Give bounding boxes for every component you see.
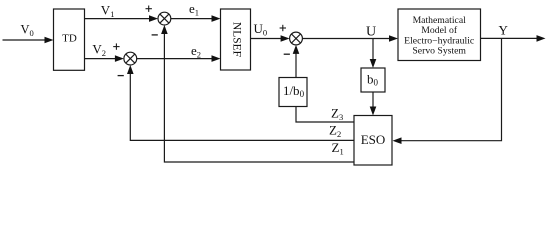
block TD — [54, 9, 85, 70]
wire b0 to ESO — [372, 92, 374, 108]
arrowhead U down into b0 — [370, 59, 377, 68]
wire Z2 from ESO to J2 — [130, 74, 354, 141]
svg-text:Servo System: Servo System — [412, 46, 466, 57]
plus sign J1 — [146, 6, 152, 12]
wire Y feedback to ESO — [401, 38, 502, 140]
arrowhead U into model — [389, 35, 398, 42]
arrowhead V0 into TD — [45, 37, 54, 44]
svg-text:Y: Y — [499, 22, 509, 37]
wire e2 — [137, 58, 213, 60]
block NLSEF — [221, 9, 251, 70]
arrowhead U0 into J3 — [281, 35, 290, 42]
wire V1 — [85, 18, 151, 20]
svg-text:TD: TD — [62, 33, 77, 45]
plus sign J2 — [113, 43, 119, 49]
arrowhead e1 into NLSEF — [212, 15, 221, 22]
minus sign J2 — [118, 75, 124, 77]
summing junction J3 — [290, 32, 303, 45]
arrowhead V2 into J2 — [115, 55, 124, 62]
arrowhead Z1 up into J1 — [161, 25, 168, 34]
wire V2 — [85, 58, 117, 60]
wire V0 input — [3, 39, 46, 41]
arrowhead 1/b0 up into J3 — [293, 45, 300, 54]
arrowhead e2 into NLSEF — [212, 55, 221, 62]
block mathematical model — [398, 9, 481, 61]
arrowhead Y output — [537, 35, 546, 42]
arrowhead V1 into J1 — [149, 15, 158, 22]
block 1/b0 — [279, 78, 307, 107]
plus sign J3 — [280, 25, 286, 31]
block ESO — [354, 116, 392, 166]
minus sign J1 — [152, 34, 158, 36]
wire 1/b0 up to J3 — [295, 54, 297, 78]
wire e1 — [171, 18, 213, 20]
wire U — [302, 38, 390, 40]
wire Y output — [481, 37, 538, 39]
wire U branch down to b0 — [372, 39, 374, 61]
wire Z3 from ESO to 1/b0 — [296, 107, 354, 123]
wire Z1 from ESO to J1 — [164, 34, 354, 163]
wire U0 — [251, 38, 282, 40]
svg-text:ESO: ESO — [361, 132, 386, 147]
svg-text:NLSEF: NLSEF — [231, 22, 243, 57]
block b0 — [361, 68, 385, 92]
summing junction J2 — [124, 52, 137, 65]
minus sign J3 — [284, 53, 290, 55]
arrowhead Z2 up into J2 — [127, 65, 134, 74]
arrowhead b0 down into ESO — [370, 107, 377, 116]
summing junction J1 — [158, 12, 171, 25]
arrowhead feedback into ESO — [393, 137, 402, 144]
svg-text:U: U — [366, 24, 376, 39]
